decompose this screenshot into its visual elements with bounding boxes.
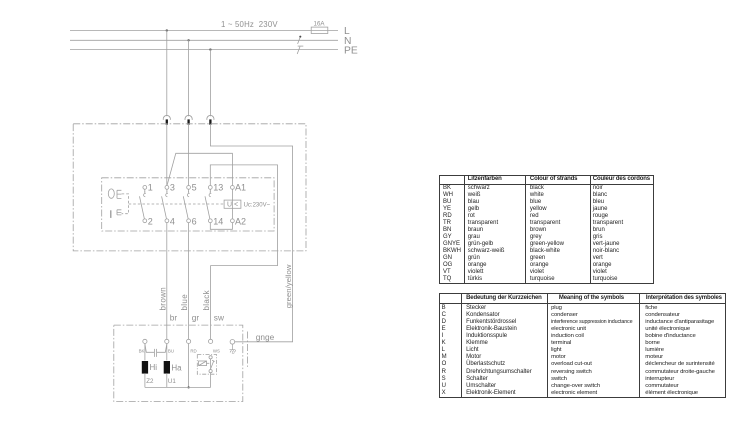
svg-text:U1: U1 [168, 378, 176, 385]
contact 5-6 blade [183, 196, 188, 219]
terminal PE earth [230, 340, 235, 345]
svg-text:4: 4 [170, 217, 175, 227]
svg-text:U <: U < [227, 202, 238, 209]
component Hi body [142, 361, 148, 374]
wire bottom bus [145, 386, 211, 388]
svg-text:6: 6 [192, 217, 197, 227]
coil terminal A2 [231, 219, 235, 223]
connector pin [166, 119, 168, 124]
contact 13-14 blade [205, 196, 210, 219]
svg-text:Z2: Z2 [146, 378, 154, 385]
svg-text:WS: WS [213, 349, 220, 354]
capacitor C plates [154, 349, 156, 357]
connector socket arc [185, 115, 192, 119]
wire jumper 14 to A2 [210, 223, 232, 230]
connector socket arc [207, 115, 214, 119]
connector socket arc [163, 115, 170, 119]
wire contact 4 down (brown) [166, 223, 168, 340]
junction on N [187, 39, 189, 41]
wire contact 13 over to WS terminal [210, 165, 277, 339]
wire L rail [70, 30, 338, 32]
wire PE plug to earth terminal (green/yellow) [210, 124, 292, 342]
svg-text:BK: BK [139, 349, 145, 354]
wire RD down [188, 344, 190, 388]
contact 13-14 terminal 13 [208, 186, 212, 190]
svg-text:A1: A1 [235, 183, 246, 193]
svg-text:brown: brown [158, 287, 167, 311]
button O [108, 189, 114, 198]
undervoltage release U&lt; leads [231, 189, 233, 219]
contact 3-4 hook [166, 193, 168, 196]
terminal BK [143, 339, 147, 343]
wire PE drop [209, 50, 211, 117]
svg-text:A2: A2 [235, 217, 246, 227]
contact 5-6 terminal 6 [187, 219, 191, 223]
wire L plug to contact 3 [166, 124, 168, 186]
wire N drop [188, 40, 190, 116]
contact 3-4 terminal 3 [165, 186, 169, 190]
contact 5-6 hook [187, 193, 189, 196]
contact 3-4 terminal 4 [165, 219, 169, 223]
svg-text:br: br [170, 312, 178, 322]
junction on L [166, 29, 168, 31]
wire L drop [166, 31, 168, 117]
svg-text:5: 5 [192, 183, 197, 193]
svg-text:blue: blue [180, 294, 189, 311]
contact 3-4 blade [162, 196, 167, 219]
contact 13-14 fixed stub [209, 189, 211, 192]
component Ha body [164, 361, 170, 374]
terminal WS [209, 339, 213, 343]
component Hi lead [144, 344, 146, 361]
svg-text:BU: BU [168, 349, 174, 354]
connector pin [209, 119, 211, 124]
svg-text:14: 14 [213, 217, 223, 227]
terminal BU [165, 339, 169, 343]
contact 5-6 terminal 5 [187, 186, 191, 190]
terminal RD [187, 339, 191, 343]
svg-text:Hi: Hi [150, 363, 158, 372]
capacitor C leads [145, 344, 167, 352]
svg-text:3: 3 [170, 183, 175, 193]
thermal switch box [197, 355, 216, 375]
contact 13-14 terminal 14 [208, 219, 212, 223]
conductor mark on PE [297, 47, 300, 54]
svg-text:black: black [202, 289, 211, 310]
coil terminal A1 [231, 186, 235, 190]
wire contact 3 to coil A1 [167, 153, 232, 185]
svg-text:sw: sw [214, 312, 225, 322]
appliance box [114, 325, 243, 401]
svg-text:gnge: gnge [256, 332, 275, 342]
contactor box [102, 178, 274, 231]
contact 3-4 fixed stub [166, 189, 168, 192]
svg-text:13: 13 [213, 183, 223, 193]
contact 13-14 hook [209, 193, 211, 196]
thermal sensor symbol [199, 361, 207, 366]
junction on bus [188, 386, 190, 388]
contact 5-6 fixed stub [188, 189, 190, 192]
svg-text:16A: 16A [314, 21, 326, 28]
contact 1-2 fixed stub [144, 189, 146, 192]
conductor mark on N [298, 37, 301, 44]
thermal switch bottom contact [209, 370, 212, 373]
wire N rail [70, 39, 338, 41]
svg-text:Ha: Ha [171, 363, 182, 372]
undervoltage release U&lt; box [224, 200, 241, 208]
thermal switch leads [210, 359, 212, 370]
enclosure outer box [73, 124, 306, 251]
contact 1-2 hook [144, 193, 146, 196]
wire contact 6 down (blue) [188, 223, 190, 340]
svg-text:green/yellow: green/yellow [284, 264, 293, 308]
button I [110, 210, 112, 218]
contact 1-2 terminal 2 [143, 219, 147, 223]
svg-text:gr: gr [192, 312, 200, 322]
contact 1-2 terminal 1 [143, 186, 147, 190]
svg-text:1 ~ 50Hz 230V: 1 ~ 50Hz 230V [221, 20, 278, 29]
linkage dashed [122, 194, 224, 214]
svg-text:Uc:230V~: Uc:230V~ [244, 203, 271, 209]
earth symbol [230, 344, 236, 353]
thermal switch top contact [209, 356, 212, 359]
wire N plug to contact 5 [188, 124, 190, 186]
appliance box extra edge segment [247, 332, 249, 367]
contact 1-2 blade [140, 196, 145, 219]
svg-text:PE: PE [344, 45, 358, 56]
svg-text:RD: RD [190, 349, 196, 354]
svg-text:1: 1 [148, 183, 153, 193]
thermal switch blade [210, 360, 214, 369]
svg-text:2: 2 [148, 217, 153, 227]
fuse F1 16A [311, 27, 328, 33]
connector pin [187, 119, 189, 124]
junction on PE [209, 48, 211, 50]
component Ha lead [166, 344, 168, 361]
wire PE rail [70, 49, 338, 51]
